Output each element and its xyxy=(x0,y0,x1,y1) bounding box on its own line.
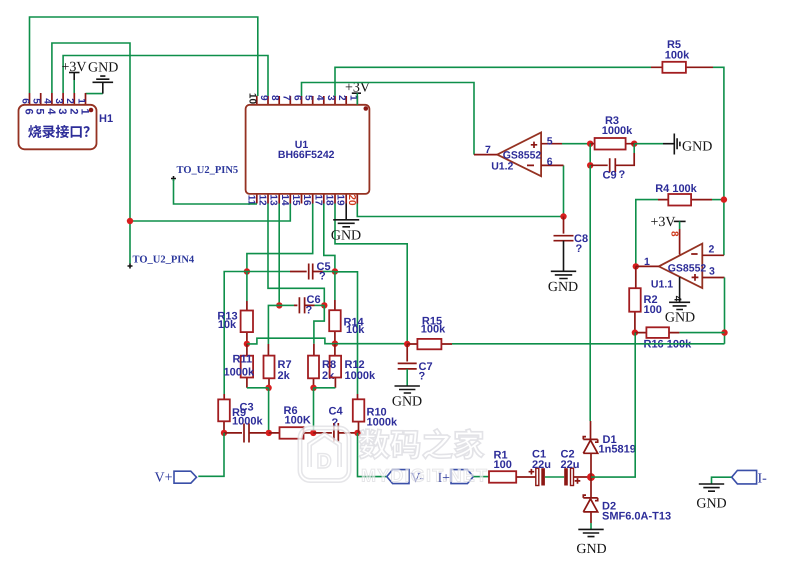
svg-text:U1.2: U1.2 xyxy=(491,161,513,173)
ground at U1.1 pin4 xyxy=(669,277,690,310)
resistor R9 xyxy=(218,394,263,433)
wire U1 pin16 to C5 left xyxy=(247,204,313,272)
svg-text:1000k: 1000k xyxy=(367,417,398,429)
svg-text:17: 17 xyxy=(312,194,323,206)
resistor R8 xyxy=(308,344,336,388)
svg-text:?: ? xyxy=(619,169,626,181)
svg-text:4: 4 xyxy=(314,95,325,101)
svg-text:GND: GND xyxy=(392,395,422,410)
resistor R1 xyxy=(489,450,536,483)
svg-text:15: 15 xyxy=(290,194,301,206)
svg-text:100k: 100k xyxy=(665,50,690,62)
svg-text:6: 6 xyxy=(23,108,35,114)
svg-text:GS8552: GS8552 xyxy=(668,262,707,274)
svg-text:1000k: 1000k xyxy=(224,367,255,379)
svg-text:10k: 10k xyxy=(346,324,365,336)
junction dot xyxy=(560,213,566,219)
svg-text:1000k: 1000k xyxy=(345,370,376,382)
diode D2 SMF6.0A-T13 xyxy=(583,477,671,523)
svg-text:100k: 100k xyxy=(421,324,446,336)
wire U1 pin5 to U1.2 pin7 xyxy=(302,83,475,155)
capacitor C9 xyxy=(587,144,634,182)
junction dots R7/R8 bottoms xyxy=(265,385,271,391)
resistor R13 xyxy=(217,301,253,344)
ground at U1 pin19 xyxy=(333,204,359,227)
svg-text:U1.1: U1.1 xyxy=(651,278,673,290)
resistor R5 xyxy=(651,39,713,73)
ground below C8 xyxy=(551,241,576,279)
wire H1 pin3 to U1 pin9 xyxy=(63,56,268,97)
junction dots R13/R14 bottoms xyxy=(244,341,250,347)
svg-text:3: 3 xyxy=(56,108,68,114)
port V+ xyxy=(174,471,197,483)
wire junction to U1 pin14 xyxy=(130,204,290,222)
svg-text:1: 1 xyxy=(644,256,650,268)
watermark text xyxy=(359,429,484,459)
svg-text:1: 1 xyxy=(75,98,86,104)
svg-text:3: 3 xyxy=(53,98,64,104)
wire U1 pin13 to C6 left xyxy=(278,204,280,306)
svg-text:22u: 22u xyxy=(561,459,580,471)
wire C5 right to R10 column xyxy=(335,272,358,394)
port V- xyxy=(387,470,409,484)
svg-text:GS8552: GS8552 xyxy=(503,149,542,161)
capacitor C7 xyxy=(398,344,433,386)
capacitor C2 xyxy=(561,449,592,486)
wire D junction up to R2 node xyxy=(591,333,635,478)
svg-text:6: 6 xyxy=(19,98,30,104)
wire I+ to R1 xyxy=(473,476,489,478)
wire U1.2 pin5 to R3 xyxy=(562,143,590,145)
resistor R3 xyxy=(587,115,637,150)
svg-text:19: 19 xyxy=(335,194,346,206)
svg-text:100: 100 xyxy=(494,459,512,471)
svg-text:V+: V+ xyxy=(155,471,173,486)
svg-text:5: 5 xyxy=(547,136,553,148)
capacitor C4 xyxy=(310,406,357,442)
svg-text:7: 7 xyxy=(485,144,491,156)
svg-text:TO_U2_PIN5: TO_U2_PIN5 xyxy=(177,165,239,176)
wire U1 pin3 to R5 xyxy=(335,67,651,96)
ground right of R3 xyxy=(634,143,663,145)
svg-text:SMF6.0A-T13: SMF6.0A-T13 xyxy=(602,511,671,523)
connector H1 xyxy=(19,93,114,149)
svg-text:TO_U2_PIN4: TO_U2_PIN4 xyxy=(133,255,195,266)
wire H1 pin6 to U1 pin10 xyxy=(30,17,258,96)
svg-text:GND: GND xyxy=(88,61,118,76)
svg-text:C9: C9 xyxy=(603,170,617,182)
op-amp U1.1 GS8552 xyxy=(633,243,725,290)
wire R12 bottom to R8 bottom xyxy=(314,387,336,389)
wire C5 right down to R14 xyxy=(334,272,336,301)
wire bus to V+ port xyxy=(198,433,224,476)
svg-text:22u: 22u xyxy=(532,459,551,471)
svg-text:GND: GND xyxy=(576,542,606,557)
svg-text:5: 5 xyxy=(303,95,314,101)
svg-text:10: 10 xyxy=(246,93,257,105)
svg-text:2k: 2k xyxy=(278,370,291,382)
svg-text:GND: GND xyxy=(696,497,726,512)
svg-text:C4: C4 xyxy=(329,406,344,418)
svg-text:1000k: 1000k xyxy=(232,416,263,428)
wire C6 right to R8 xyxy=(314,305,324,343)
svg-text:7: 7 xyxy=(280,95,291,101)
wire U1 pin18 to R15 node xyxy=(335,204,407,345)
capacitor C6 xyxy=(276,294,327,317)
resistor R15 xyxy=(404,315,452,349)
svg-text:12: 12 xyxy=(257,194,268,206)
svg-text:16: 16 xyxy=(301,194,312,206)
svg-text:?: ? xyxy=(306,305,313,317)
ic U1 BH66F5242 xyxy=(245,93,369,206)
svg-text:5: 5 xyxy=(34,108,46,114)
ground at H1 pin1 xyxy=(86,93,103,95)
svg-text:2: 2 xyxy=(336,95,347,101)
svg-text:R11: R11 xyxy=(233,354,253,366)
resistor R4 xyxy=(636,183,727,266)
svg-text:1n5819: 1n5819 xyxy=(599,444,636,456)
op-amp U1.2 GS8552 xyxy=(474,133,564,177)
capacitor C1 xyxy=(529,449,565,486)
resistor R11 xyxy=(224,344,255,388)
svg-text:4: 4 xyxy=(42,98,53,104)
wire C5 left to R9 column xyxy=(224,272,247,395)
svg-text:BH66F5242: BH66F5242 xyxy=(278,149,335,161)
diode D1 1n5819 xyxy=(583,421,636,477)
svg-text:GND: GND xyxy=(548,280,578,295)
svg-text:5: 5 xyxy=(31,98,42,104)
ground below C7 xyxy=(395,386,420,393)
wire R14 bottom to R15 node xyxy=(335,343,407,345)
junction dot D1/D2 xyxy=(587,473,595,481)
svg-text:20: 20 xyxy=(346,194,357,206)
wire R7 bottom to bus xyxy=(268,388,270,433)
wire C6 left to R7 xyxy=(268,305,279,344)
svg-text:?: ? xyxy=(419,371,426,383)
svg-text:MYDIGIT.NET: MYDIGIT.NET xyxy=(361,466,488,486)
wire R11 bottom to R7 bottom xyxy=(247,387,269,389)
wire U1 pin17 to C5 right xyxy=(324,204,335,272)
wire U1.1 pin3 net xyxy=(724,278,726,344)
svg-text:?: ? xyxy=(319,271,326,283)
capacitor C3 xyxy=(221,424,269,443)
wire R5 to U1.1 pin2 xyxy=(713,67,724,255)
wire C9 node down to D1 xyxy=(589,165,591,421)
svg-text:+3V: +3V xyxy=(651,215,676,230)
wire U1 pin11 to TO_U2_PIN5 xyxy=(174,179,258,204)
svg-text:100K: 100K xyxy=(285,415,311,427)
resistor R14 xyxy=(329,300,365,344)
svg-text:GND: GND xyxy=(665,311,695,326)
svg-text:1: 1 xyxy=(79,108,91,114)
svg-text:8: 8 xyxy=(669,231,680,237)
wire R15 to U1.1 pin3 column xyxy=(452,343,725,345)
capacitor C8 xyxy=(554,217,589,256)
svg-text:4: 4 xyxy=(45,108,57,115)
resistor R6 xyxy=(266,405,314,439)
svg-text:H1: H1 xyxy=(99,113,113,125)
svg-text:14: 14 xyxy=(279,194,290,206)
wire H1 pin4 down-net xyxy=(52,43,130,264)
svg-text:GND: GND xyxy=(331,229,361,244)
svg-text:2k: 2k xyxy=(322,370,335,382)
svg-text:4: 4 xyxy=(672,296,683,302)
port I- xyxy=(732,470,757,484)
svg-text:2: 2 xyxy=(64,98,75,104)
svg-text:18: 18 xyxy=(324,194,335,206)
svg-text:2: 2 xyxy=(67,108,79,114)
resistor R16 xyxy=(632,327,725,350)
svg-text:3: 3 xyxy=(709,266,715,278)
resistor R10 xyxy=(353,394,398,436)
svg-text:?: ? xyxy=(576,243,583,255)
ground below D2 xyxy=(590,523,592,529)
resistor R12 xyxy=(330,344,376,388)
junction dot xyxy=(127,218,133,224)
watermark logo xyxy=(300,428,349,481)
svg-text:R4 100k: R4 100k xyxy=(655,183,697,195)
resistor R2 xyxy=(629,266,662,332)
svg-text:GND: GND xyxy=(682,140,712,155)
svg-text:10k: 10k xyxy=(218,319,237,331)
wire C5 left down to R13 xyxy=(246,272,248,302)
wire bus to V- port xyxy=(358,433,387,477)
svg-text:13: 13 xyxy=(268,194,279,206)
svg-text:I-: I- xyxy=(758,472,768,487)
ground at I- xyxy=(712,477,732,484)
node TO_U2_PIN4 xyxy=(128,264,133,269)
wire U1 pin12 to C6 right xyxy=(268,204,324,306)
svg-text:D: D xyxy=(317,450,332,473)
svg-text:9: 9 xyxy=(258,95,269,101)
svg-text:1000k: 1000k xyxy=(602,125,633,137)
svg-text:2: 2 xyxy=(709,243,715,255)
resistor R7 xyxy=(264,344,292,388)
capacitor C5 xyxy=(244,261,338,283)
svg-text:6: 6 xyxy=(547,156,553,168)
wire jog between R13 and R14 bottoms xyxy=(247,338,335,344)
wire R8 bottom to bus xyxy=(313,388,315,433)
wire U1 pin20 to U1.2 pin6 xyxy=(357,165,563,216)
svg-text:100: 100 xyxy=(644,304,662,316)
svg-text:8: 8 xyxy=(269,95,280,101)
